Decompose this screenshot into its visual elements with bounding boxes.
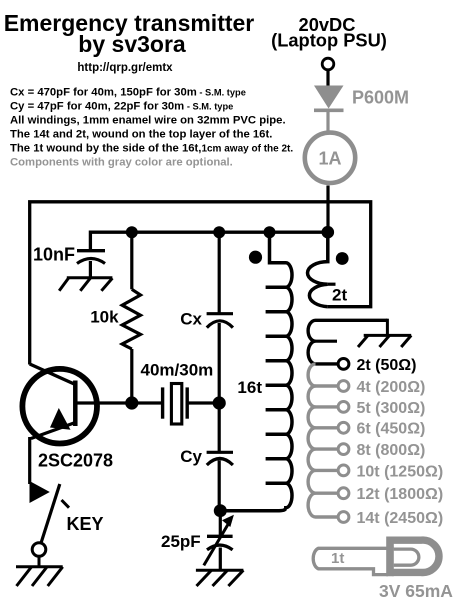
svg-text:Cy: Cy — [180, 447, 202, 466]
svg-text:1t: 1t — [331, 550, 344, 567]
wire pivot to ground — [38, 556, 41, 567]
lamp 3V 65mA — [386, 537, 394, 577]
input terminal — [322, 58, 334, 70]
inductor L3 gray winding section (optional) — [308, 364, 338, 517]
svg-text:8t (800Ω): 8t (800Ω) — [357, 442, 426, 459]
svg-text:by sv3ora: by sv3ora — [78, 31, 186, 57]
variable capacitor 25pF — [219, 511, 222, 537]
svg-text:Cx: Cx — [180, 310, 202, 329]
tap 8t 800 ohm — [338, 442, 425, 459]
inductor L1 16t — [220, 232, 292, 511]
key lever — [41, 484, 60, 544]
tap 5t 300 ohm — [338, 400, 425, 417]
svg-text:The 1t wound by the side of th: The 1t wound by the side of the 16t,1cm … — [10, 142, 293, 154]
inductor L2 2t primary — [307, 232, 327, 307]
svg-text:KEY: KEY — [67, 514, 104, 534]
svg-text:25pF: 25pF — [161, 532, 201, 551]
capacitor Cy — [218, 403, 221, 452]
svg-text:2SC2078: 2SC2078 — [38, 450, 113, 470]
svg-text:2t (50Ω): 2t (50Ω) — [357, 357, 417, 374]
ground under 10nF — [59, 278, 112, 291]
phasing dot 16t — [249, 251, 262, 264]
svg-text:1A: 1A — [318, 148, 341, 168]
svg-text:14t (2450Ω): 14t (2450Ω) — [357, 510, 444, 527]
svg-text:5t (300Ω): 5t (300Ω) — [357, 400, 426, 417]
svg-text:All windings, 1mm enamel wire: All windings, 1mm enamel wire on 32mm PV… — [10, 114, 286, 126]
svg-text:2t: 2t — [332, 286, 347, 305]
svg-text:12t (1800Ω): 12t (1800Ω) — [357, 486, 444, 503]
junction supply rail / 10k — [126, 226, 138, 238]
inductor L4 1t — [313, 548, 393, 574]
tap 10t 1250 ohm — [338, 463, 443, 480]
svg-text:P600M: P600M — [352, 88, 409, 108]
tap 14t 2450 ohm — [338, 510, 443, 527]
ground under 25pF — [196, 570, 244, 586]
capacitor Cx — [218, 232, 221, 314]
junction supply rail / fuse feed — [322, 226, 335, 239]
inductor L3 tap winding top — [308, 320, 387, 364]
svg-text:http://qrp.gr/emtx: http://qrp.gr/emtx — [77, 62, 173, 74]
ground under key — [16, 567, 63, 586]
capacitor 10nF — [77, 249, 105, 252]
fuse F1 1A — [305, 133, 355, 183]
transistor Q1 2SC2078 — [22, 369, 97, 444]
svg-text:16t: 16t — [237, 378, 262, 397]
svg-text:3V 65mA: 3V 65mA — [379, 581, 453, 601]
junction 16t bottom / 25pF — [214, 504, 227, 517]
2t mid stub — [328, 283, 336, 286]
tap 2t 50ohm — [338, 359, 349, 370]
rail1 collector rail + 2t return — [30, 202, 371, 365]
wire diode to fuse — [326, 110, 329, 131]
diode P600M — [314, 86, 344, 109]
junction supply rail / Cx — [213, 226, 225, 238]
svg-text:Components with gray color are: Components with gray color are optional. — [10, 156, 233, 168]
resistor 10k — [130, 232, 133, 289]
wire emitter to key — [28, 437, 31, 484]
phasing dot 2t — [336, 252, 349, 265]
tap 12t 1800 ohm — [338, 486, 443, 503]
tap 4t 200 ohm — [338, 379, 425, 396]
wire terminal to diode — [326, 70, 329, 86]
svg-text:10t (1250Ω): 10t (1250Ω) — [357, 463, 444, 480]
wire fuse to rail2 — [326, 186, 329, 233]
key contact triangle — [30, 481, 50, 503]
svg-text:Cx = 470pF for 40m, 150pF for: Cx = 470pF for 40m, 150pF for 30m - S.M.… — [10, 87, 246, 99]
rail2 supply rail — [90, 232, 327, 250]
tap mid stub — [316, 340, 338, 343]
key lever tick — [62, 500, 70, 508]
svg-text:40m/30m: 40m/30m — [141, 361, 214, 380]
key pivot — [32, 543, 46, 557]
tap 6t 450 ohm — [338, 421, 425, 438]
svg-text:4t (200Ω): 4t (200Ω) — [357, 379, 426, 396]
svg-text:10k: 10k — [90, 308, 119, 327]
junction crystal / Cx-Cy bus — [213, 396, 226, 409]
svg-text:The 14t and 2t, wound on the t: The 14t and 2t, wound on the top layer o… — [10, 128, 272, 140]
junction supply rail / 16t — [264, 226, 276, 238]
ground at tap winding — [358, 319, 411, 347]
junction base / crystal / 10k — [125, 396, 138, 409]
svg-text:Cy = 47pF for 40m, 22pF for 30: Cy = 47pF for 40m, 22pF for 30m - S.M. t… — [10, 101, 233, 113]
svg-text:10nF: 10nF — [33, 245, 75, 265]
svg-text:(Laptop PSU): (Laptop PSU) — [271, 30, 387, 51]
svg-text:6t (450Ω): 6t (450Ω) — [357, 421, 426, 438]
